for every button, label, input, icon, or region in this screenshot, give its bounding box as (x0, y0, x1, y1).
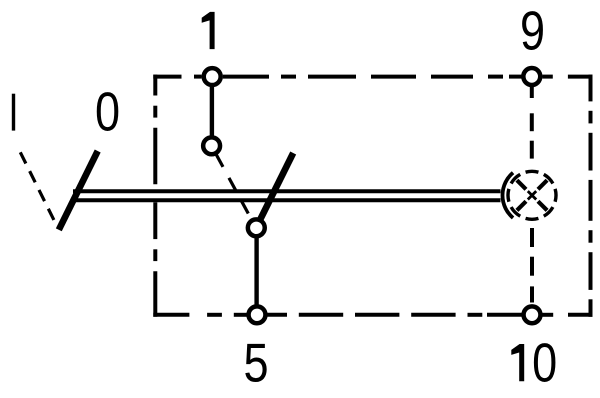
svg-text:9: 9 (520, 0, 545, 62)
svg-text:0: 0 (532, 331, 557, 393)
svg-text:0: 0 (95, 80, 120, 142)
svg-text:5: 5 (244, 331, 269, 393)
